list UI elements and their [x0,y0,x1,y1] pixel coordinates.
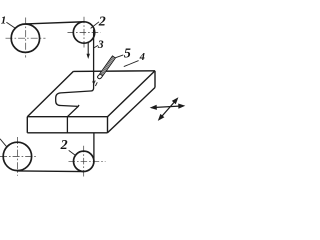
tool 5 tip ferrule line [100,74,103,76]
left edge of top face [27,71,73,116]
bottom edge of front face [27,132,107,134]
svg-text:2: 2 [60,138,68,153]
cut line on front face [66,117,68,133]
cut slot path on top face [56,71,94,116]
front-left vertical edge [26,117,28,133]
wire 3 vertical run from roller 2 to workpiece [93,30,95,72]
belt line between bottom rollers [17,170,83,173]
svg-text:3: 3 [97,39,104,51]
right edge of top face [108,71,156,117]
leader for label 2 bottom [69,150,76,155]
wire below workpiece down to roller 2 bottom [93,133,95,164]
leader for label 4 [124,61,139,67]
roller 2 (bottom guide) crosshair centerlines [69,146,106,177]
workpiece 4 : right side face [108,71,156,133]
leader for label 5 [115,55,123,58]
leader for label 3 [94,45,98,48]
front-right vertical edge [107,117,109,133]
back edge of top face [74,70,156,73]
svg-text:5: 5 [124,46,131,61]
leader for label 2 top [91,22,99,29]
bottom-left roller [3,142,31,170]
roller 2 (bottom guide) [74,151,94,171]
svg-text:1: 1 [1,15,7,27]
leader into bottom-left roller from image edge [0,139,7,147]
tool 5 (nozzle pencil) body, occludes edge behind [97,56,115,79]
workpiece 4 : top face outline [27,71,155,117]
belt/wire tangent line over rollers 1 and 2 [26,22,85,24]
sparks at tool tip [93,80,98,86]
leader for label 1 [6,22,15,28]
bottom-left roller crosshair centerlines [0,137,37,176]
front edge of top face [27,116,107,118]
wire feed arrow (downward) [87,42,89,55]
tool 5 inner lines [102,58,114,75]
roller 1 crosshair centerlines [6,18,46,58]
crossed feed-direction arrows (table movement) [152,99,184,119]
svg-text:4: 4 [139,52,145,63]
workpiece 4 : front face [27,117,107,133]
roller 1 [11,24,39,52]
rear-right vertical edge [154,71,156,88]
roller 2 (top guide) [73,22,94,43]
roller 2 (top guide) crosshair centerlines [68,17,101,48]
bottom edge of right face [108,88,156,133]
